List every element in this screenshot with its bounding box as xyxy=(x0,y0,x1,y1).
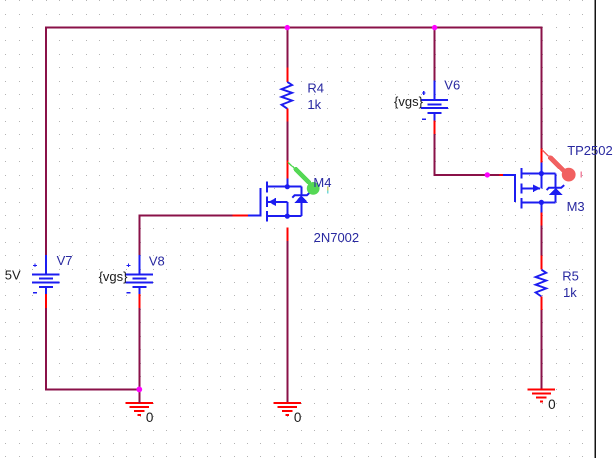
M3 gate pin red stub xyxy=(500,174,504,176)
svg-text:1k: 1k xyxy=(307,97,321,112)
svg-text:5V: 5V xyxy=(5,268,21,283)
M4 bulk stub xyxy=(267,201,287,203)
M4 channel segments xyxy=(266,182,268,193)
M4 body diode triangle xyxy=(294,196,308,203)
svg-text:R4: R4 xyxy=(307,81,324,96)
wire left vertical lower xyxy=(45,308,47,391)
ground 0 left xyxy=(126,403,153,415)
V6 bottom pin red stub xyxy=(434,120,436,134)
M3 source junction dot xyxy=(539,200,544,205)
svg-text:{vgs}: {vgs} xyxy=(99,269,129,284)
wire top rail xyxy=(45,27,543,29)
svg-text:1k: 1k xyxy=(563,285,577,300)
wire M3 source to R5 vertical xyxy=(540,226,542,256)
M3 body diode branch xyxy=(555,174,557,188)
wire left vertical upper xyxy=(45,27,47,256)
transistor M4 (NMOS 2N7002) xyxy=(233,160,310,241)
wire V6 to M3 gate horizontal xyxy=(434,174,500,176)
resistor R4 xyxy=(282,68,293,122)
M4 drain pin red stub xyxy=(286,160,288,178)
svg-text:V8: V8 xyxy=(149,254,165,269)
svg-text:V6: V6 xyxy=(444,78,460,93)
M3 bulk stub xyxy=(522,187,540,189)
ground 0 right xyxy=(528,389,555,401)
resistor R5 xyxy=(536,256,547,310)
M4 drain bar xyxy=(267,186,301,188)
page border xyxy=(595,0,597,458)
voltage source V7 xyxy=(32,255,59,294)
wire R4 to M4 drain vertical xyxy=(286,122,288,161)
junction dot top rail at R4 xyxy=(285,25,290,30)
svg-text:TP2502: TP2502 xyxy=(567,143,613,158)
probe tick mark xyxy=(580,171,582,177)
svg-text:0: 0 xyxy=(146,410,154,425)
M4 gate pin red stub xyxy=(233,215,249,217)
svg-text:{vgs}: {vgs} xyxy=(394,94,424,109)
svg-text:M4: M4 xyxy=(313,175,331,190)
wire M4 source to ground vertical xyxy=(286,241,288,403)
wire top rail to M3 drain vertical xyxy=(540,27,542,149)
M4 source bar xyxy=(267,215,301,217)
ground 0 middle xyxy=(274,403,301,415)
wire V6 top vertical xyxy=(434,27,436,81)
svg-text:V7: V7 xyxy=(57,253,73,268)
caret artifact right of M4 xyxy=(327,187,328,191)
M4 source junction dot xyxy=(285,214,290,219)
svg-text:2N7002: 2N7002 xyxy=(314,230,360,245)
junction dot gate wire M3 xyxy=(485,172,490,177)
M3 source pin red stub xyxy=(540,213,542,226)
M3 source bar xyxy=(522,201,556,203)
M4 drain junction dot xyxy=(285,184,290,189)
V7 bottom pin red stub xyxy=(45,294,47,308)
wire V8 bottom to ground vertical xyxy=(138,308,140,403)
M3 drain junction dot xyxy=(539,171,544,176)
svg-text:0: 0 xyxy=(548,397,556,412)
svg-text:0: 0 xyxy=(294,410,302,425)
M3 drain pin red stub xyxy=(540,149,542,163)
M3 body diode triangle xyxy=(549,188,563,195)
junction dot top rail at V6 xyxy=(432,25,437,30)
transistor M3 xyxy=(500,149,565,226)
wire R4 top vertical xyxy=(286,27,288,68)
junction dot bottom left ground xyxy=(136,387,142,393)
V8 bottom pin red stub xyxy=(138,294,140,308)
red probe TP2502 on M3 xyxy=(542,150,564,171)
M4 gate lead xyxy=(248,188,261,215)
svg-text:M3: M3 xyxy=(567,199,585,214)
M3 drain bar xyxy=(522,173,556,175)
M4 source pin red stub xyxy=(286,228,288,242)
M4 body diode branch xyxy=(300,187,302,196)
M3 channel segments xyxy=(521,168,523,179)
M3 bulk arrow xyxy=(533,184,540,192)
wire V6 bottom vertical xyxy=(434,134,436,176)
M4 bulk arrow xyxy=(268,198,275,206)
wire V8 top to M4 gate horizontal xyxy=(138,215,233,217)
svg-text:R5: R5 xyxy=(562,269,579,284)
M3 source pin blue lead xyxy=(540,202,542,212)
wire V8 top vertical xyxy=(138,215,140,257)
wire R5 to ground vertical xyxy=(540,310,542,390)
M3 drain pin blue lead xyxy=(540,163,542,174)
green probe cursor on M4 xyxy=(288,162,309,182)
voltage source V8 xyxy=(126,255,153,294)
M3 gate lead xyxy=(503,175,515,202)
voltage source V6 xyxy=(421,81,448,121)
wire stub into left ground xyxy=(138,389,140,403)
M4 drain pin blue lead xyxy=(286,178,288,186)
wire bottom-left horizontal xyxy=(45,388,141,390)
